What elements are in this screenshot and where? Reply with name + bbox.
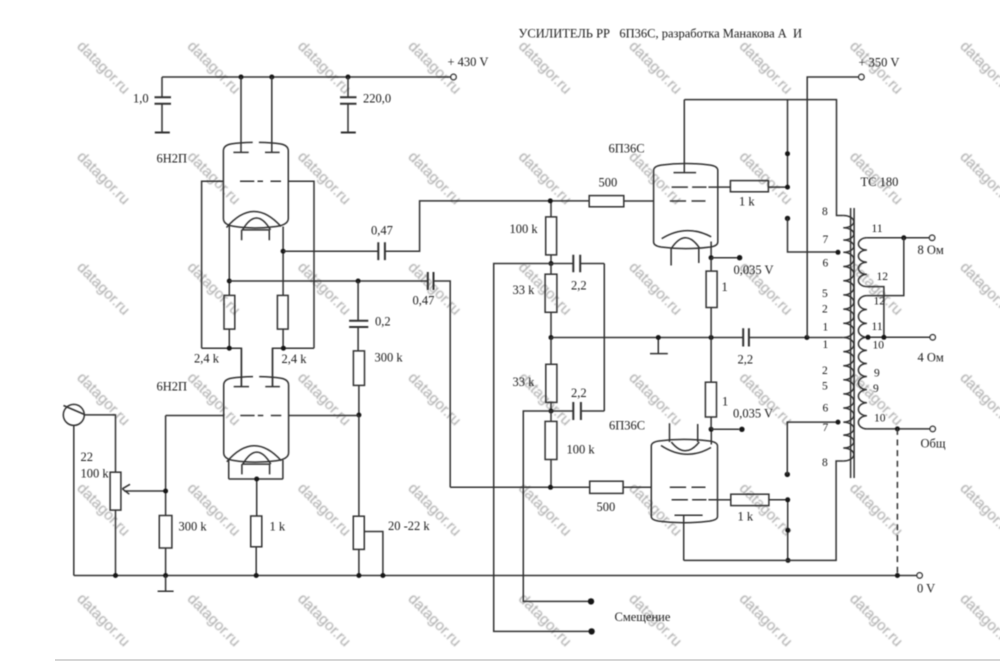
node cathode return <box>709 335 714 340</box>
potentiometer 22 / 100 k <box>81 450 121 576</box>
node tap lower <box>836 420 841 425</box>
svg-text:2: 2 <box>822 365 828 377</box>
svg-text:УСИЛИТЕЛЬ РР 6П36С, разработ: УСИЛИТЕЛЬ РР 6П36С, разработка Манакова … <box>519 27 803 41</box>
svg-text:2,4 k: 2,4 k <box>194 352 220 366</box>
transformer T1 secondary winding 11-12 <box>858 238 866 287</box>
wire V1 cathode to C0,47 upper <box>283 250 378 252</box>
node top grid <box>548 198 553 203</box>
wire 20-22k tap <box>364 532 383 576</box>
svg-text:1: 1 <box>823 322 829 334</box>
wire triode strap lower <box>787 500 789 561</box>
node rail-1k <box>254 573 259 578</box>
node rail-20-22k <box>356 573 361 578</box>
tube V1 6Н2П (upper triode pair) <box>223 142 288 240</box>
resistor 2,4 k right <box>277 295 307 366</box>
node rail-C220 <box>346 75 351 80</box>
capacitor 0,2 <box>349 281 391 351</box>
svg-text:2: 2 <box>822 304 828 316</box>
resistor 33 k lower <box>513 338 557 412</box>
svg-text:Смещение: Смещение <box>615 610 671 624</box>
transformer T1 secondary winding 10-9-9-10 <box>858 337 867 429</box>
svg-text:1 k: 1 k <box>270 520 286 534</box>
UL tap stub upper <box>785 216 838 252</box>
V3 screen wire to 1 k <box>718 186 731 188</box>
svg-text:11: 11 <box>872 321 883 333</box>
svg-text:5: 5 <box>822 288 828 300</box>
svg-text:10: 10 <box>873 340 885 352</box>
V2 grid wire left <box>166 415 224 417</box>
svg-text:100 k: 100 k <box>510 222 539 236</box>
svg-text:4 Ом: 4 Ом <box>918 351 944 365</box>
V3 cathode lead <box>710 242 712 258</box>
capacitor 220,0 <box>340 77 391 133</box>
resistor 1 cathode lower <box>705 338 728 430</box>
svg-text:0,47: 0,47 <box>371 224 393 238</box>
node rail-tap <box>380 573 385 578</box>
V1 grid wire right <box>288 181 314 348</box>
node 2,4k-right bottom <box>281 346 286 351</box>
V4 screen wire to 1 k <box>718 499 731 501</box>
node mid ground <box>549 335 554 340</box>
terminal 8 Ом <box>918 235 944 257</box>
test point 0,035 V upper <box>711 255 773 277</box>
node Общ feedback <box>895 426 900 431</box>
node strap-1k upper <box>785 185 790 190</box>
terminal 4 Ом <box>918 335 944 365</box>
UL tap stub lower <box>785 422 838 477</box>
node ground-mid <box>656 335 661 340</box>
svg-text:10: 10 <box>874 413 886 425</box>
node V4 cathode <box>709 427 714 432</box>
svg-text:2,4 k: 2,4 k <box>282 352 308 366</box>
transformer T1 secondary winding 12-11 <box>858 296 867 338</box>
svg-text:12: 12 <box>877 271 889 283</box>
node V3 cathode <box>709 255 714 260</box>
svg-text:20 -22 k: 20 -22 k <box>388 519 430 533</box>
tube V2 6Н2П (lower triode pair) <box>224 377 289 475</box>
svg-text:6: 6 <box>823 258 829 270</box>
test point 0,035 V lower <box>711 407 773 432</box>
svg-text:+ 430 V: + 430 V <box>448 55 489 69</box>
node V2 cathode <box>254 477 259 482</box>
resistor 1 k cathode V2 <box>251 516 286 576</box>
wire C0,47 upper to grid node <box>385 201 589 251</box>
resistor 1 k screen lower <box>731 494 788 523</box>
footer separator line <box>55 659 1000 661</box>
node 2,4k-left bottom <box>227 346 232 351</box>
svg-text:1 k: 1 k <box>738 510 754 524</box>
svg-text:8 Ом: 8 Ом <box>918 243 944 257</box>
svg-text:0 V: 0 V <box>917 582 935 596</box>
svg-text:ТС 180: ТС 180 <box>861 175 899 189</box>
svg-text:100 k: 100 k <box>81 467 110 481</box>
resistor 500 lower <box>590 481 652 514</box>
resistor 100 k upper <box>510 201 557 264</box>
bias terminal 2 <box>588 628 594 634</box>
wire +350V to CT <box>807 77 859 338</box>
pot wiper arrow <box>122 484 165 494</box>
node strap upper <box>785 151 790 156</box>
wire wiper/grid <box>165 416 167 516</box>
wire C0,47 lower to bottom grid node <box>434 281 590 487</box>
capacitor 0,47 lower <box>413 272 435 308</box>
svg-text:1,0: 1,0 <box>133 92 149 106</box>
node rail-pot <box>113 573 118 578</box>
svg-text:8: 8 <box>822 206 828 218</box>
resistor 300 k grid leak <box>159 516 207 576</box>
svg-text:300 k: 300 k <box>375 351 404 365</box>
terminal Общ <box>921 426 946 450</box>
V4 anode lead <box>683 515 685 560</box>
svg-text:100 k: 100 k <box>567 443 596 457</box>
V4 cathode lead <box>710 429 712 444</box>
wire mid ground bus <box>551 337 743 339</box>
wire +430V rail <box>162 76 451 78</box>
svg-text:7: 7 <box>823 422 829 434</box>
ground symbol middle <box>650 338 668 354</box>
svg-text:0,47: 0,47 <box>413 294 435 308</box>
secondary pin labels <box>872 223 889 425</box>
svg-text:2,2: 2,2 <box>571 386 587 400</box>
svg-text:0,035 V: 0,035 V <box>734 263 774 277</box>
terminal +430 V <box>451 74 456 79</box>
node B+ CT <box>804 335 809 340</box>
svg-text:+ 350 V: + 350 V <box>859 56 900 70</box>
node 8 Ом junction <box>901 235 906 240</box>
node bias upper <box>549 261 554 266</box>
resistor 1 cathode upper <box>706 258 728 338</box>
resistor 2,4 k left <box>194 295 235 365</box>
wire V3 anode to primary top <box>684 100 843 216</box>
primary pin labels <box>822 206 829 469</box>
wire Общ <box>867 428 930 430</box>
V1 cathode lead left <box>228 226 230 296</box>
node V1 cathode-right <box>281 249 286 254</box>
wire input sleeve to 0V rail <box>73 425 75 575</box>
wire winding A bottom <box>867 287 884 338</box>
node 0,2 junction <box>356 279 361 284</box>
svg-text:0,035 V: 0,035 V <box>733 407 773 421</box>
V1 anode leads <box>241 77 272 152</box>
node bottom grid <box>548 485 553 490</box>
svg-text:2,2: 2,2 <box>571 279 587 293</box>
dashed feedback wire <box>896 429 898 576</box>
resistor 20-22 k <box>353 416 430 576</box>
transformer T1 primary winding <box>843 216 854 462</box>
svg-text:6: 6 <box>823 403 829 415</box>
capacitor 2,2 bypass <box>738 328 844 366</box>
node strap-anode lower <box>786 558 791 563</box>
svg-text:6Н2П: 6Н2П <box>157 152 188 166</box>
resistor 500 upper <box>589 176 653 207</box>
svg-text:6П36С: 6П36С <box>609 142 645 156</box>
resistor 1 k screen upper <box>730 181 787 209</box>
node strap lower <box>785 528 790 533</box>
wire 2,2 link vertical <box>603 264 605 412</box>
svg-text:500: 500 <box>599 176 618 190</box>
V1 cathode lead right <box>282 227 284 296</box>
V3 anode lead <box>683 100 685 173</box>
svg-text:500: 500 <box>597 500 616 514</box>
svg-text:6Н2П: 6Н2П <box>157 380 188 394</box>
resistor 33 k upper <box>513 264 557 338</box>
capacitor 1,0 <box>133 77 171 133</box>
wire cross-couple left <box>202 348 242 387</box>
svg-text:1: 1 <box>722 395 728 409</box>
svg-text:9: 9 <box>874 368 880 380</box>
svg-text:33 k: 33 k <box>513 375 536 389</box>
V2 cathode leads and bracket <box>229 460 283 516</box>
capacitor 2,2 upper <box>551 255 604 293</box>
svg-text:6П36С: 6П36С <box>609 419 645 433</box>
svg-text:11: 11 <box>872 223 883 235</box>
svg-text:33 k: 33 k <box>513 283 536 297</box>
node rail-C1a <box>239 75 244 80</box>
capacitor 2,2 lower <box>551 386 604 420</box>
svg-text:1: 1 <box>722 280 728 294</box>
svg-text:22: 22 <box>81 450 94 464</box>
ground symbol left <box>158 576 174 592</box>
wire bias lower <box>523 411 588 601</box>
capacitor 0,47 upper <box>371 224 393 261</box>
node rail-300k <box>163 573 168 578</box>
svg-text:5: 5 <box>822 381 828 393</box>
svg-text:9: 9 <box>873 383 879 395</box>
terminal +350 V <box>859 56 900 80</box>
tube V4 6П36С lower <box>651 423 717 523</box>
wire bias upper <box>494 264 589 632</box>
wire cross-couple right <box>273 348 315 387</box>
tube V3 6П36С upper <box>654 163 718 265</box>
node tap upper <box>836 250 841 255</box>
node wiper <box>163 489 168 494</box>
svg-text:300 k: 300 k <box>179 520 208 534</box>
resistor 100 k lower <box>545 411 595 487</box>
V2 anode leads <box>241 348 272 386</box>
node V2 grid junction <box>356 413 361 418</box>
node strap-1k lower <box>785 497 790 502</box>
input jack <box>63 404 84 425</box>
wire V1 cathode-left to C0,47 lower <box>229 280 427 282</box>
svg-text:Общ: Общ <box>921 437 946 451</box>
svg-text:220,0: 220,0 <box>363 92 391 106</box>
node V1 cathode-left <box>227 279 232 284</box>
svg-text:8: 8 <box>822 457 828 469</box>
resistor 300 k middle <box>353 351 403 416</box>
svg-text:1: 1 <box>823 339 829 351</box>
svg-text:2,2: 2,2 <box>738 353 754 367</box>
wire 4 Ом <box>867 336 930 338</box>
node 4 Ом coil <box>866 335 871 340</box>
svg-text:0,2: 0,2 <box>375 315 391 329</box>
wire secondary 11 top to 8 Ом <box>867 237 930 239</box>
terminal 0 V <box>917 573 922 578</box>
node rail-C1b <box>269 75 274 80</box>
wire triode strap upper <box>787 100 789 188</box>
wire input to volume pot <box>84 415 115 472</box>
wire 0V rail <box>74 575 917 577</box>
bias terminal 1 <box>588 598 594 604</box>
node 4 Ом link <box>881 335 886 340</box>
svg-text:1 k: 1 k <box>739 195 755 209</box>
node bias lower <box>549 409 554 414</box>
transformer core <box>851 208 855 478</box>
node rail-feedback <box>895 573 900 578</box>
svg-text:7: 7 <box>823 234 829 246</box>
wire winding B top <box>867 238 904 296</box>
wire V4 anode to primary bottom <box>684 461 844 560</box>
V1 grid wire left <box>202 181 224 348</box>
V2 grid wire right <box>289 415 359 417</box>
